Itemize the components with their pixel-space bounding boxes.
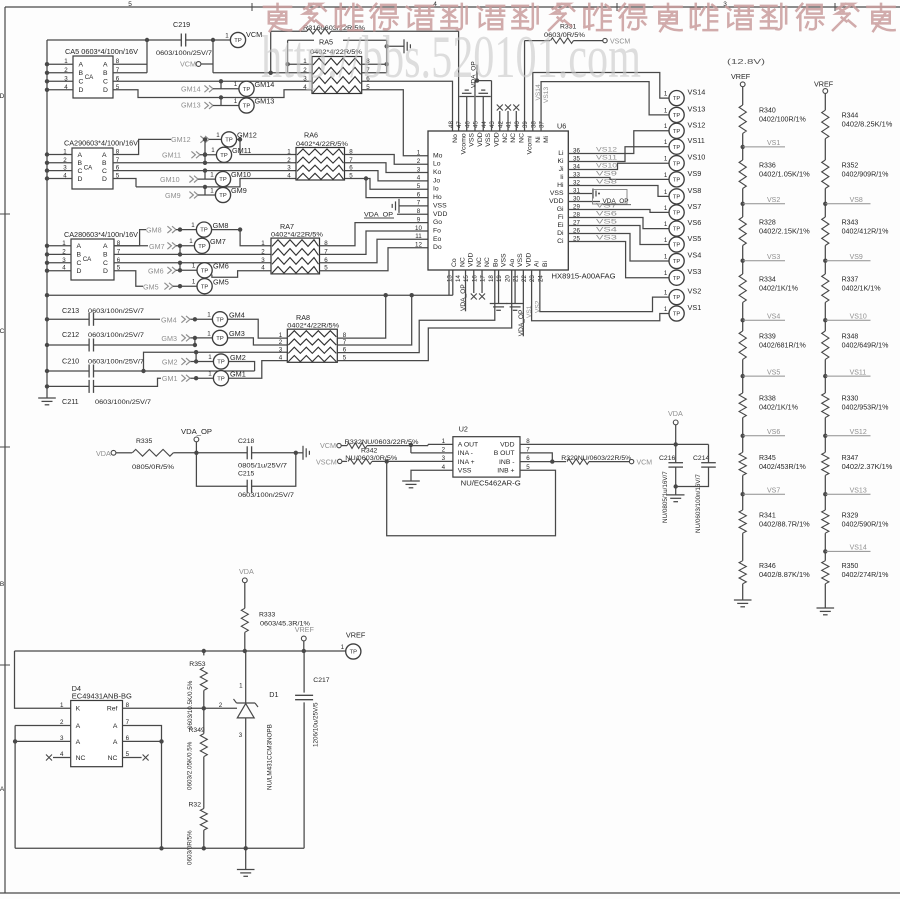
junction node: [145, 38, 149, 42]
wire Vcomi U6 pin39 to R331: [524, 41, 526, 131]
svg-text:C210: C210: [62, 356, 79, 365]
svg-text:1: 1: [287, 149, 291, 156]
svg-text:B OUT: B OUT: [494, 450, 515, 457]
svg-text:22: 22: [521, 275, 528, 282]
svg-text:42: 42: [497, 121, 504, 128]
testpoint VS9: [669, 172, 684, 187]
svg-text:38: 38: [530, 121, 537, 128]
svg-text:VDA: VDA: [239, 567, 254, 576]
svg-text:R336: R336: [759, 163, 776, 170]
wire VS2 U6 pin24: [540, 270, 669, 312]
svg-text:R342: R342: [361, 447, 377, 454]
wire VS12: [568, 131, 669, 154]
svg-text:CA: CA: [85, 74, 94, 81]
svg-text:B: B: [103, 252, 108, 259]
svg-text:VDA_OP: VDA_OP: [181, 427, 212, 436]
svg-text:(12.8V): (12.8V): [727, 57, 766, 66]
svg-text:C: C: [78, 168, 83, 175]
svg-text:D: D: [103, 87, 108, 94]
testpoint VS4: [669, 253, 684, 268]
svg-text:VS7: VS7: [767, 487, 780, 494]
svg-text:1: 1: [664, 91, 668, 98]
svg-text:R329: R329: [842, 513, 859, 520]
svg-text:VS8: VS8: [850, 197, 863, 204]
svg-text:http://bbs.520101.com: http://bbs.520101.com: [261, 24, 641, 90]
wire Vcomo to U6 pin47: [458, 31, 460, 131]
node VS3: [742, 246, 744, 261]
svg-text:A: A: [113, 723, 118, 730]
svg-text:R338: R338: [759, 396, 776, 403]
VSS symbol U6 pin31: [568, 193, 593, 195]
ground ladder: [824, 584, 826, 608]
resistor R343: [824, 204, 826, 217]
svg-text:R340: R340: [759, 108, 776, 115]
svg-text:B: B: [77, 252, 82, 259]
svg-text:VS10: VS10: [688, 153, 706, 162]
svg-text:GM4: GM4: [161, 316, 177, 325]
ground ladder: [742, 584, 744, 600]
svg-text:GM6: GM6: [213, 262, 229, 271]
node VS9: [824, 246, 826, 261]
svg-text:VS5: VS5: [596, 219, 617, 226]
ground RA5 VSS tap: [387, 45, 404, 47]
svg-text:0603/0R/5%: 0603/0R/5%: [187, 830, 194, 865]
svg-text:4: 4: [261, 265, 265, 272]
node VS5: [742, 359, 744, 376]
svg-text:TP: TP: [673, 113, 681, 119]
svg-text:1: 1: [64, 58, 68, 65]
resistor R341: [742, 494, 744, 510]
svg-text:TP: TP: [673, 312, 681, 318]
svg-text:18: 18: [488, 275, 495, 282]
svg-text:0603/100n/25V/7: 0603/100n/25V/7: [88, 358, 144, 365]
svg-text:Go: Go: [433, 219, 442, 226]
resistor R336: [742, 147, 744, 160]
svg-text:C211: C211: [62, 397, 79, 406]
svg-text:HX8915-A00AFAG: HX8915-A00AFAG: [552, 272, 616, 281]
svg-text:2: 2: [442, 447, 446, 454]
svg-text:1: 1: [341, 644, 345, 651]
svg-text:0402/88.7R/1%: 0402/88.7R/1%: [759, 522, 810, 529]
svg-text:GM3: GM3: [229, 329, 245, 338]
svg-text:Hi: Hi: [557, 182, 564, 189]
wire RA7.6 to U6 pin11: [320, 239, 429, 262]
wire VS7: [568, 210, 669, 213]
wire RA8.7 to U6 pin13: [337, 295, 411, 345]
svg-text:0402/1K/1%: 0402/1K/1%: [759, 405, 798, 412]
svg-text:1: 1: [664, 123, 668, 130]
svg-text:C: C: [103, 260, 108, 267]
svg-text:VDD: VDD: [433, 211, 447, 218]
svg-text:VDA_OP: VDA_OP: [364, 211, 394, 218]
svg-text:37: 37: [539, 121, 546, 128]
svg-text:C: C: [77, 260, 82, 267]
svg-text:VDA_OP: VDA_OP: [518, 309, 525, 336]
ground U2 VSS: [411, 470, 453, 481]
svg-text:VDA: VDA: [668, 409, 683, 418]
svg-text:CA5 0603*4/100n/16V: CA5 0603*4/100n/16V: [65, 47, 138, 56]
svg-text:D1: D1: [269, 690, 278, 699]
svg-text:0603/2.05K/0.5%: 0603/2.05K/0.5%: [187, 741, 194, 790]
wire VS3: [568, 242, 669, 278]
svg-text:VS2: VS2: [688, 287, 702, 296]
node VS4: [742, 302, 744, 320]
svg-text:D: D: [102, 176, 107, 183]
capacitor C219: [180, 34, 182, 47]
svg-text:2: 2: [62, 248, 66, 255]
svg-text:1: 1: [261, 240, 265, 247]
svg-text:Mo: Mo: [433, 152, 443, 159]
svg-text:C217: C217: [313, 677, 329, 684]
resistor R345: [742, 436, 744, 453]
svg-text:VDD: VDD: [549, 198, 563, 205]
svg-text:2: 2: [261, 248, 265, 255]
power rail VDA_OP U6 pins45/43: [474, 81, 476, 131]
svg-text:TP: TP: [217, 360, 225, 366]
svg-text:GM11: GM11: [162, 150, 181, 159]
testpoint VS11: [669, 139, 684, 154]
wire GM14 row (CA5.6 to RA5.3): [113, 80, 312, 82]
svg-text:VCM: VCM: [246, 30, 262, 39]
testpoint VS6: [669, 221, 684, 236]
power label VDA_OP U6 pin8: [397, 213, 428, 215]
svg-text:VS5: VS5: [688, 234, 702, 243]
svg-text:0402/681R/1%: 0402/681R/1%: [759, 343, 806, 350]
node VS7: [742, 475, 744, 494]
wire row3 CA29.6 to RA6.3: [113, 170, 296, 172]
svg-text:1: 1: [60, 702, 64, 709]
wire GM2 net C210 to RA8.3: [94, 370, 255, 372]
svg-text:D: D: [79, 87, 84, 94]
svg-text:2: 2: [64, 67, 68, 74]
svg-text:1: 1: [225, 32, 229, 39]
svg-text:3: 3: [62, 257, 66, 264]
svg-text:R320NU/0603/22R/5%: R320NU/0603/22R/5%: [561, 455, 631, 462]
svg-text:1: 1: [664, 221, 668, 228]
svg-text:R345: R345: [759, 455, 776, 462]
testpoint VS13: [669, 107, 684, 122]
svg-text:R343: R343: [842, 220, 859, 227]
wire VS10: [568, 163, 669, 169]
svg-text:41: 41: [506, 121, 513, 128]
svg-text:5: 5: [128, 1, 132, 8]
svg-text:VS4: VS4: [767, 313, 780, 320]
svg-text:VREF: VREF: [346, 631, 366, 640]
svg-text:Ji: Ji: [559, 166, 564, 173]
svg-text:R350: R350: [842, 563, 859, 570]
svg-text:VS14: VS14: [850, 545, 867, 552]
svg-text:R353: R353: [189, 661, 205, 668]
wire GM12 to RA6.1: [240, 139, 296, 154]
svg-text:A: A: [79, 62, 84, 69]
svg-text:NC: NC: [502, 133, 509, 143]
svg-text:4: 4: [64, 84, 68, 91]
svg-text:VS5: VS5: [767, 369, 780, 376]
svg-text:1: 1: [664, 290, 668, 297]
wire CA5 pin8/7 to bus: [113, 63, 147, 65]
svg-text:R344: R344: [842, 113, 859, 120]
wire GM8 to RA7.1: [240, 230, 271, 246]
svg-text:VCM: VCM: [320, 441, 336, 450]
resistor R330: [824, 376, 826, 393]
svg-text:VS9: VS9: [850, 254, 863, 261]
svg-text:D4: D4: [72, 684, 81, 693]
svg-text:NC: NC: [459, 257, 466, 267]
wire VS9: [568, 178, 669, 180]
svg-text:1: 1: [63, 149, 67, 156]
node VS11: [824, 359, 826, 376]
svg-text:CA280603*4/100n/16V: CA280603*4/100n/16V: [64, 230, 138, 239]
svg-text:VSS: VSS: [469, 133, 476, 147]
svg-text:VS9: VS9: [688, 169, 702, 178]
svg-text:CA: CA: [84, 165, 93, 172]
power stub VDA_OP U6 pin15: [465, 270, 467, 311]
resistor R348: [824, 320, 826, 331]
wire GM1 net C211 to RA8.4: [94, 378, 162, 386]
svg-text:NU/0805/1u/16V/7: NU/0805/1u/16V/7: [662, 471, 669, 523]
svg-text:C: C: [102, 168, 107, 175]
svg-text:VS6: VS6: [688, 218, 702, 227]
svg-text:0402/1.05K/1%: 0402/1.05K/1%: [759, 172, 810, 179]
resistor R344: [824, 93, 826, 110]
svg-text:1: 1: [239, 683, 243, 690]
svg-text:A OUT: A OUT: [458, 442, 478, 449]
wire VCM long line to U6 pin13: [47, 294, 453, 296]
svg-text:K: K: [76, 706, 81, 713]
svg-text:13: 13: [447, 275, 454, 282]
wire RA8.6 to U6 pin18: [337, 270, 495, 353]
power stub VDA_OP U6 pin22: [522, 270, 524, 336]
svg-text:VDA: VDA: [96, 449, 111, 458]
node VS10: [824, 302, 826, 320]
wire VCM top bus: [47, 39, 181, 41]
svg-text:NU/LM431CCM3NOPB: NU/LM431CCM3NOPB: [267, 724, 274, 790]
svg-text:16: 16: [471, 275, 478, 282]
svg-text:A: A: [0, 786, 5, 793]
svg-text:VSS: VSS: [550, 190, 564, 197]
svg-text:TP: TP: [216, 336, 224, 342]
svg-text:GM10: GM10: [160, 175, 180, 184]
svg-text:GM6: GM6: [148, 267, 164, 276]
svg-text:1: 1: [207, 330, 211, 337]
svg-text:2: 2: [287, 157, 291, 164]
testpoint VS2: [669, 290, 684, 305]
svg-text:VREF: VREF: [295, 625, 315, 634]
svg-text:NC: NC: [76, 755, 86, 762]
svg-text:VREF: VREF: [731, 72, 751, 81]
node VS6: [742, 418, 744, 436]
svg-text:VSS: VSS: [433, 202, 447, 209]
wire INA- feedback: [410, 444, 412, 453]
svg-text:VS11: VS11: [688, 136, 705, 145]
testpoint VS8: [669, 189, 684, 204]
svg-text:Do: Do: [433, 244, 442, 251]
svg-text:0402/2.37K/1%: 0402/2.37K/1%: [842, 464, 893, 471]
svg-text:0402/412R/1%: 0402/412R/1%: [842, 229, 889, 236]
svg-text:3: 3: [239, 732, 243, 739]
testpoint VS12: [669, 123, 684, 138]
svg-text:GM11: GM11: [232, 146, 251, 155]
svg-text:0402/953R/1%: 0402/953R/1%: [842, 405, 889, 412]
svg-text:17: 17: [480, 275, 487, 282]
power label VDA_OP U6 pin30: [568, 201, 600, 203]
svg-text:1: 1: [192, 279, 196, 286]
svg-text:VS7: VS7: [688, 202, 702, 211]
no-connect D4 pin4: [53, 757, 71, 759]
svg-text:TP: TP: [220, 153, 228, 159]
svg-text:R352: R352: [842, 163, 859, 170]
svg-text:Mi: Mi: [543, 135, 550, 143]
svg-text:VDD: VDD: [494, 132, 501, 146]
svg-text:TP: TP: [673, 96, 681, 102]
svg-text:0402/909R/1%: 0402/909R/1%: [842, 172, 889, 179]
svg-text:TP: TP: [234, 38, 242, 44]
svg-text:VS6: VS6: [767, 429, 780, 436]
wire VS14 U6 pin38: [533, 73, 670, 132]
svg-text:43: 43: [489, 121, 496, 128]
wire RA5.5 to U6 pin1: [362, 90, 428, 156]
svg-text:15: 15: [463, 275, 470, 282]
wire CA28.8 up to GM8 row: [114, 230, 146, 246]
svg-text:NC: NC: [510, 133, 517, 143]
svg-text:VSS: VSS: [458, 467, 472, 474]
wire CA28.5 to GM5: [114, 271, 143, 287]
ground U6 pin44: [482, 97, 484, 132]
wire RA6.8 to U6 pin2: [345, 155, 429, 165]
svg-text:24: 24: [537, 275, 544, 282]
svg-text:1: 1: [664, 205, 668, 212]
svg-text:4: 4: [417, 175, 421, 182]
wire CA29.8 up to GM12 row: [113, 139, 171, 154]
wire D4 pins7,6 tie: [123, 726, 162, 849]
svg-text:VCM: VCM: [180, 60, 196, 69]
wire U2 VDD to VDA: [520, 443, 709, 445]
resistor R347: [824, 436, 826, 453]
svg-text:44: 44: [481, 121, 488, 128]
svg-text:45: 45: [473, 121, 480, 128]
svg-text:GM9: GM9: [231, 186, 247, 195]
svg-text:TP: TP: [673, 211, 681, 217]
svg-text:VS9: VS9: [596, 171, 617, 178]
svg-text:GM2: GM2: [162, 357, 178, 366]
svg-text:D: D: [0, 93, 5, 100]
svg-text:23: 23: [529, 275, 536, 282]
svg-text:Di: Di: [557, 230, 564, 237]
svg-text:0402/100R/1%: 0402/100R/1%: [759, 117, 806, 124]
svg-text:VS10: VS10: [596, 163, 617, 170]
svg-text:TP: TP: [350, 650, 358, 656]
wire row2 CA29.7 to RA6.2: [113, 162, 296, 164]
svg-text:R333: R333: [259, 612, 275, 619]
svg-text:GM1: GM1: [230, 370, 246, 379]
wire RA7.7 to U6 pin10: [320, 231, 429, 254]
svg-text:Bi: Bi: [542, 260, 549, 267]
svg-text:1: 1: [664, 253, 668, 260]
svg-text:A: A: [77, 243, 82, 250]
IC U6 HX8915: [428, 131, 568, 270]
testpoint VREF: [346, 644, 361, 659]
ground U6 pin21: [514, 270, 516, 304]
svg-text:TP: TP: [200, 228, 208, 234]
svg-text:1: 1: [208, 354, 212, 361]
svg-text:VDD: VDD: [468, 253, 475, 267]
svg-text:6: 6: [417, 191, 421, 198]
svg-text:VS14: VS14: [688, 88, 706, 97]
svg-text:TP: TP: [673, 178, 681, 184]
svg-text:NC: NC: [108, 755, 118, 762]
svg-text:VS13: VS13: [688, 104, 706, 113]
wire VCM vertical to RA5 feed: [212, 40, 214, 73]
wire VS8: [568, 186, 669, 197]
svg-text:C: C: [0, 328, 5, 335]
sheet border frame: [5, 6, 900, 8]
wire VS5: [568, 226, 669, 245]
svg-text:Ei: Ei: [557, 222, 564, 229]
wire INB+ loop to VSCM: [387, 461, 556, 535]
svg-text:R349: R349: [189, 727, 205, 734]
svg-text:TP: TP: [673, 295, 681, 301]
svg-text:NU/0603/100n/16V/7: NU/0603/100n/16V/7: [695, 474, 702, 533]
svg-text:GM5: GM5: [213, 277, 229, 286]
svg-text:0603/100n/25V/7: 0603/100n/25V/7: [95, 399, 151, 406]
svg-text:TP: TP: [673, 145, 681, 151]
resistor R346: [742, 533, 744, 561]
svg-text:RA8: RA8: [296, 313, 310, 322]
wire VS6: [568, 218, 669, 229]
svg-text:3: 3: [63, 165, 67, 172]
svg-text:1: 1: [664, 139, 668, 146]
svg-text:R341: R341: [759, 513, 776, 520]
svg-text:48: 48: [448, 121, 455, 128]
svg-text:Fo: Fo: [433, 227, 441, 234]
svg-text:TP: TP: [673, 276, 681, 282]
svg-text:D: D: [78, 176, 83, 183]
wire RA7.8 to U6 pin9: [320, 223, 429, 246]
svg-text:C: C: [103, 79, 108, 86]
svg-text:R335: R335: [136, 438, 152, 445]
svg-text:2: 2: [279, 339, 283, 346]
no-connect U6 pins 16,17: [473, 270, 475, 293]
svg-text:0805/0R/5%: 0805/0R/5%: [132, 464, 174, 471]
svg-text:Io: Io: [433, 186, 439, 193]
svg-text:VS3: VS3: [688, 267, 702, 276]
svg-text:0402/1K/1%: 0402/1K/1%: [759, 286, 798, 293]
testpoint VS7: [669, 205, 684, 220]
svg-text:0402/1K/1%: 0402/1K/1%: [842, 286, 881, 293]
svg-text:Ci: Ci: [557, 238, 564, 245]
svg-text:VS12: VS12: [688, 120, 706, 129]
svg-text:VS1: VS1: [767, 140, 780, 147]
svg-text:R348: R348: [842, 334, 859, 341]
svg-text:VS1: VS1: [688, 303, 702, 312]
svg-text:Lo: Lo: [433, 161, 441, 168]
wire VREF rail: [15, 650, 346, 652]
svg-text:TP: TP: [673, 243, 681, 249]
svg-text:TP: TP: [225, 138, 233, 144]
svg-text:VS13: VS13: [850, 487, 867, 494]
svg-text:Ii: Ii: [560, 174, 564, 181]
svg-text:GM12: GM12: [171, 135, 191, 144]
svg-text:1: 1: [234, 98, 238, 105]
svg-text:TP: TP: [219, 177, 227, 183]
wire row2 CA28.7 to RA7.2: [114, 253, 271, 255]
svg-text:3: 3: [64, 75, 68, 82]
net stub VCM output: [629, 459, 633, 463]
svg-text:C: C: [79, 79, 84, 86]
svg-text:2: 2: [63, 157, 67, 164]
wire RA6.7 to U6 pin3: [345, 163, 429, 173]
wire GM4 net C213 to RA8.1: [94, 318, 161, 320]
